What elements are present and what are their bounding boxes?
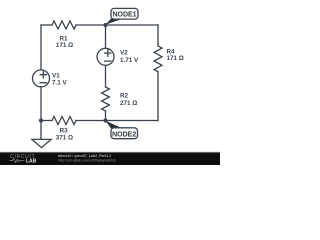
footer bar — [0, 152, 220, 165]
wire V2 to R2 — [105, 65, 107, 87]
wire R1 to top-right corner — [76, 24, 158, 26]
wire left vertical lower — [40, 87, 42, 121]
wire top-left to R1 — [41, 24, 52, 26]
svg-text:1.71 V: 1.71 V — [120, 57, 139, 64]
node NODE1 junction dot — [103, 23, 107, 27]
wire right vertical upper — [157, 25, 159, 46]
svg-text:LAB: LAB — [26, 158, 37, 164]
svg-text:R2: R2 — [120, 93, 129, 100]
svg-text:7.1 V: 7.1 V — [52, 80, 68, 87]
node NODE2 junction dot — [103, 118, 107, 122]
NODE2 label box — [111, 128, 138, 139]
wire bottom-left to R3 — [41, 120, 52, 122]
svg-text:NODE2: NODE2 — [112, 131, 136, 138]
wire R2 to bottom — [105, 111, 107, 121]
voltage source V2 — [97, 48, 114, 65]
node A junction dot left-bottom — [39, 118, 43, 122]
svg-text:http://circuitlab.com/c/hfhy8q: http://circuitlab.com/c/hfhy8q/edit0z2 — [58, 158, 116, 162]
svg-text:171 Ω: 171 Ω — [56, 42, 73, 49]
svg-text:171 Ω: 171 Ω — [167, 55, 184, 62]
wire right vertical lower — [157, 72, 159, 121]
svg-text:271 Ω: 271 Ω — [120, 100, 137, 107]
CircuitLab logo — [10, 154, 35, 160]
resistor R3 — [52, 117, 76, 125]
voltage source V1 — [33, 70, 50, 87]
svg-text:V2: V2 — [120, 50, 128, 57]
resistor R2 — [102, 87, 110, 111]
wire left vertical upper — [40, 25, 42, 70]
svg-text:V1: V1 — [52, 73, 60, 80]
resistor R1 — [52, 21, 76, 29]
NODE1 pointer wedge — [106, 19, 123, 25]
label R1 value — [52, 36, 184, 142]
wire middle vertical upper — [105, 25, 107, 48]
NODE2 pointer wedge — [106, 121, 123, 129]
svg-text:NODE1: NODE1 — [112, 12, 136, 19]
resistor R4 — [154, 46, 162, 72]
svg-text:371 Ω: 371 Ω — [56, 134, 73, 141]
NODE1 label box — [111, 8, 138, 19]
ground — [32, 121, 51, 148]
wire R3 to bottom-right — [76, 120, 158, 122]
